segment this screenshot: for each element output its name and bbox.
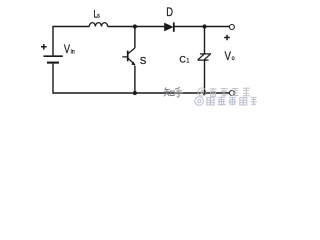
label Vin xyxy=(64,44,75,56)
capacitor C1 bottom lead wire xyxy=(204,60,206,93)
label S xyxy=(140,56,147,67)
node junction at capacitor on bottom rail xyxy=(202,91,206,95)
label D xyxy=(166,6,173,19)
transistor S emitter wire xyxy=(134,66,136,93)
wire top rail middle segment xyxy=(108,26,165,28)
svg-text:V: V xyxy=(64,44,70,56)
watermark zhihu line 1 xyxy=(164,87,183,97)
svg-text:in: in xyxy=(71,49,75,55)
output terminal Vo circle xyxy=(229,25,234,30)
svg-text:V: V xyxy=(225,50,232,63)
inductor Ls xyxy=(89,23,107,27)
plus sign at source xyxy=(41,44,47,50)
svg-text:1: 1 xyxy=(186,58,189,64)
node junction at capacitor tap xyxy=(202,24,206,28)
svg-text:D: D xyxy=(166,6,173,19)
wire bottom rail xyxy=(53,92,229,94)
watermark at-name line 1 xyxy=(198,87,250,96)
label C1 xyxy=(179,54,189,64)
svg-text:C: C xyxy=(179,54,186,64)
wire top rail right segment xyxy=(174,26,229,28)
node junction at emitter on bottom rail xyxy=(133,91,137,95)
wire left vertical from top rail to source xyxy=(52,26,54,56)
wire top rail left segment xyxy=(53,26,89,28)
transistor S collector wire xyxy=(134,27,136,49)
capacitor C1 top lead wire xyxy=(204,27,206,54)
svg-text:s: s xyxy=(97,12,100,20)
transistor S emitter arrowhead xyxy=(131,62,135,66)
label Vo xyxy=(225,50,236,63)
node junction at transistor collector tap xyxy=(133,24,137,28)
watermark at-name line 2 xyxy=(195,97,257,106)
svg-text:S: S xyxy=(140,56,147,67)
capacitor C1 plates xyxy=(198,54,212,60)
diode D xyxy=(164,22,174,31)
label Ls xyxy=(93,9,100,21)
transistor S symbol xyxy=(122,48,135,65)
voltage source Vin battery plates xyxy=(44,56,63,62)
wire left vertical from source to bottom rail xyxy=(52,64,54,94)
output terminal bottom circle xyxy=(229,91,234,96)
plus sign at output xyxy=(224,35,230,41)
